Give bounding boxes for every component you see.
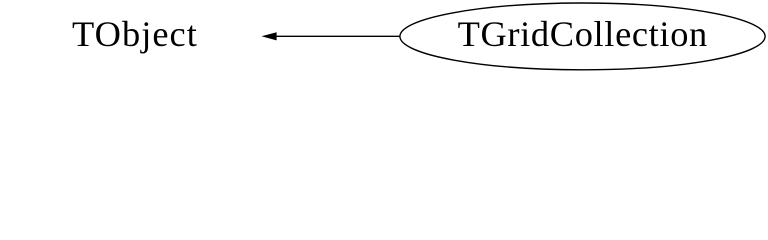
svg-text:TObject: TObject (72, 14, 198, 54)
arrowhead (262, 32, 277, 40)
ellipse node TGridCollection (400, 3, 765, 70)
svg-text:TGridCollection: TGridCollection (458, 14, 708, 54)
wire edge shaft (276, 35, 400, 37)
